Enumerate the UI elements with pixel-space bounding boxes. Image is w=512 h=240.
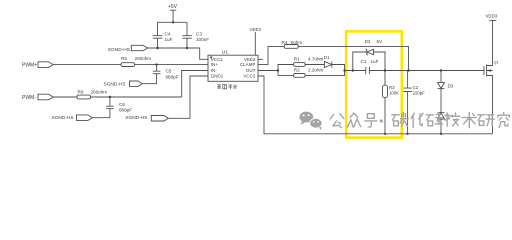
wire gate line (345, 70, 366, 72)
svg-text:VCC2: VCC2 (243, 74, 256, 79)
svg-text:U1: U1 (222, 49, 228, 55)
node OUT split junction (277, 69, 279, 71)
net VEE2 label (249, 27, 263, 59)
svg-text:D2: D2 (365, 39, 371, 44)
highlight box (yellow) (346, 31, 402, 137)
capacitor C2 (403, 71, 425, 134)
svg-text:SGND-HS: SGND-HS (52, 115, 74, 121)
svg-text:C3: C3 (196, 31, 202, 36)
power VDD3 (486, 13, 498, 65)
node R3 bottom junction (384, 133, 386, 135)
zener diode D2 (353, 39, 385, 70)
node C2/R4 junction (407, 69, 409, 71)
resistor R6 (77, 90, 107, 99)
wire PWM+ to IN+ (53, 64, 208, 66)
svg-text:1uF: 1uF (165, 37, 173, 42)
svg-text:4.7ohm: 4.7ohm (308, 56, 323, 61)
wire R4 to gate node (298, 46, 408, 70)
watermark char hua (411, 113, 423, 127)
wire gate line right (369, 70, 484, 72)
wire D1 to merge (332, 65, 345, 71)
capacitor C6 (92, 97, 132, 118)
watermark char yan (478, 115, 495, 126)
resistor R3 (383, 71, 400, 134)
wire R2 branch (278, 71, 345, 76)
svg-text:R4: R4 (282, 40, 288, 45)
svg-text:C4: C4 (165, 31, 171, 36)
port SGND-HS (GND1) (125, 115, 168, 121)
svg-text:VDD3: VDD3 (486, 13, 498, 18)
resistor R4 (282, 40, 303, 48)
svg-text:PWM+: PWM+ (22, 63, 37, 69)
watermark char ji (445, 113, 460, 126)
node C4 bottom junction (156, 47, 158, 49)
svg-text:C5: C5 (166, 69, 172, 74)
wire D3/D4 branch (440, 71, 442, 134)
wire VCC2 to bottom rail (258, 76, 493, 134)
node +5V junction (172, 21, 174, 23)
wire PWM- run (53, 96, 182, 98)
svg-text:0ohm: 0ohm (291, 40, 303, 45)
watermark char gui (426, 113, 442, 126)
svg-text:CLAMP: CLAMP (240, 62, 256, 67)
svg-text:C2: C2 (413, 85, 419, 90)
svg-text:R1: R1 (294, 56, 300, 61)
node C5 tap junction (155, 63, 157, 65)
svg-text:IN-: IN- (211, 68, 218, 73)
power +5V (168, 4, 178, 22)
svg-text:Q1: Q1 (494, 60, 499, 64)
resistor R5 (121, 56, 151, 67)
svg-text:200ohm: 200ohm (91, 90, 108, 95)
svg-text:R2: R2 (294, 67, 300, 72)
svg-text:2.2ohm: 2.2ohm (308, 67, 323, 72)
node D3 top junction (440, 69, 442, 71)
port SGND-HS (C6) (52, 115, 93, 121)
diode D4 (438, 113, 454, 119)
resistor R2 (294, 67, 324, 77)
watermark char hao (365, 114, 377, 127)
svg-text:VCC1: VCC1 (211, 57, 224, 62)
wire cap bottom rail to VCC1 (148, 48, 208, 59)
svg-text:R5: R5 (121, 56, 127, 61)
diode D1 (324, 55, 332, 68)
svg-text:GND1: GND1 (211, 74, 224, 79)
port SGND-HS (C5) (104, 81, 143, 88)
svg-text:R3: R3 (389, 85, 395, 90)
wire OUT (258, 70, 278, 72)
node R3 top junction (384, 69, 386, 71)
wire CLAMP to R4 (258, 46, 284, 64)
svg-text:SGND-HS: SGND-HS (104, 82, 126, 88)
svg-text:D3: D3 (448, 83, 454, 88)
svg-text:220pF: 220pF (413, 91, 426, 96)
watermark char zhong (347, 113, 360, 127)
svg-text:C1: C1 (361, 59, 367, 64)
node D2 branch left junction (352, 69, 354, 71)
capacitor C3 (182, 22, 209, 48)
transistor Q1 MOSFET (484, 60, 499, 134)
svg-text:100K: 100K (389, 91, 399, 96)
node D4 bottom junction (440, 133, 442, 135)
wire R1 branch (278, 65, 325, 71)
svg-text:SGND-HS: SGND-HS (108, 47, 130, 53)
svg-text:SGND-HS: SGND-HS (125, 115, 147, 121)
label driver chip (CJK) (217, 85, 236, 90)
svg-text:200ohm: 200ohm (135, 56, 152, 61)
svg-text:680pF: 680pF (119, 108, 132, 113)
watermark dot separator (380, 119, 383, 122)
svg-text:100nF: 100nF (196, 37, 209, 42)
port SGND-HS (top) (108, 45, 148, 53)
capacitor C4 (153, 22, 173, 48)
svg-text:OUT: OUT (246, 68, 256, 73)
svg-text:+5V: +5V (168, 4, 178, 10)
svg-text:680pF: 680pF (166, 75, 179, 80)
port PWM+ (22, 62, 53, 69)
node C3 bottom junction (186, 47, 188, 49)
watermark char gong (330, 114, 344, 128)
svg-text:C6: C6 (119, 102, 125, 107)
node C2 bottom junction (406, 133, 408, 135)
resistor R1 (294, 56, 324, 66)
op-amp U1 driver IC (208, 49, 258, 81)
port PWM- (22, 94, 53, 101)
svg-text:D1: D1 (324, 55, 330, 60)
watermark char jiu (498, 113, 509, 128)
svg-text:1uF: 1uF (371, 59, 379, 64)
svg-text:IN+: IN+ (211, 62, 219, 67)
watermark char tan (392, 113, 408, 127)
capacitor C5 (142, 65, 179, 84)
svg-text:VEE2: VEE2 (249, 27, 261, 32)
svg-text:VEE2: VEE2 (244, 57, 256, 62)
watermark wechat logo (299, 112, 322, 130)
wire PWM- up to IN- (182, 71, 208, 98)
svg-text:PWM-: PWM- (22, 95, 36, 101)
wire GND1 down (168, 76, 208, 118)
svg-text:R6: R6 (78, 90, 84, 95)
capacitor C1 (361, 59, 379, 74)
svg-text:5V: 5V (377, 39, 384, 44)
wire top rail (158, 21, 188, 23)
node merge junction (343, 69, 345, 71)
node C6 tap junction (109, 96, 111, 98)
watermark char shu (462, 113, 476, 128)
diode D3 (438, 82, 454, 88)
